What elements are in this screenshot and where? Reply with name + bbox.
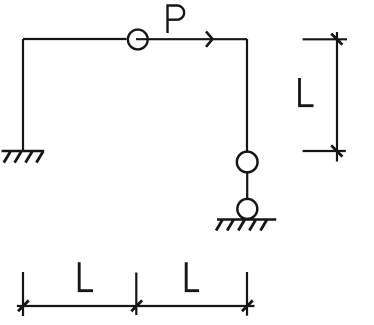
left support hatch 3 bbox=[26, 152, 33, 163]
right support lower hinge circle bbox=[237, 199, 257, 219]
right support hatch 4 bbox=[249, 220, 255, 231]
right support hatch 3 bbox=[238, 220, 244, 231]
right support hatch 5 bbox=[261, 220, 267, 231]
right support upper hinge circle bbox=[237, 152, 258, 173]
bottom dimension left extension line bbox=[22, 272, 24, 316]
wire: top beam left segment bbox=[23, 38, 127, 40]
right support hatch 1 bbox=[216, 220, 222, 231]
right support hatch 2 bbox=[227, 220, 233, 231]
bottom dimension right extension line bbox=[246, 272, 248, 316]
right dimension top extension line bbox=[303, 38, 347, 40]
arrowhead of force P bbox=[206, 32, 213, 47]
bottom dimension middle tick bbox=[131, 300, 142, 311]
wire: left column bbox=[22, 39, 24, 151]
left support hatch 4 bbox=[36, 152, 43, 163]
hinge circle on beam (load application point) bbox=[128, 30, 148, 50]
left support hatch 1 bbox=[4, 152, 11, 163]
right dimension vertical line bbox=[336, 32, 338, 162]
wire: top beam right segment (from hinge center to right corner) bbox=[136, 38, 247, 40]
label L (bottom right span) bbox=[186, 262, 199, 290]
right dimension top tick bbox=[331, 34, 342, 45]
label L (right dimension) bbox=[300, 78, 314, 106]
right dimension bottom extension line bbox=[303, 150, 346, 152]
bottom dimension horizontal line bbox=[17, 305, 255, 307]
wire: right column bbox=[246, 39, 248, 152]
bottom dimension left tick bbox=[18, 300, 29, 311]
left fixed support ground line bbox=[2, 150, 45, 152]
label L (bottom left span) bbox=[79, 262, 93, 290]
left support hatch 2 bbox=[15, 152, 22, 163]
bottom dimension middle extension line bbox=[135, 273, 137, 316]
wire: link between hinges bbox=[246, 173, 248, 198]
right support ground line bbox=[217, 218, 276, 220]
right dimension bottom tick bbox=[331, 145, 342, 156]
bottom dimension right tick bbox=[242, 300, 253, 311]
label P bbox=[168, 6, 185, 34]
